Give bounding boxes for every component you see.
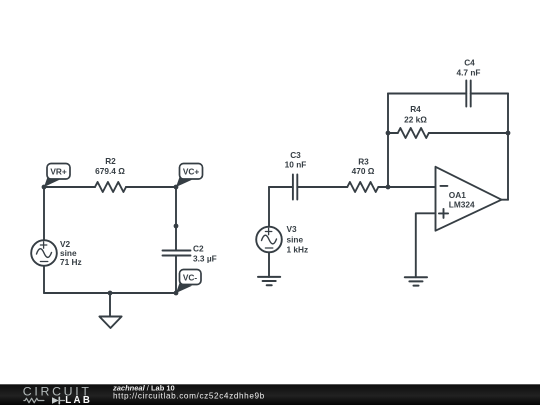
wire C3 right plate to R3 left lead <box>297 186 347 188</box>
wire bottom (left rail to right rail) <box>44 292 176 294</box>
wire R3 right lead to op-amp inverting input <box>378 186 435 188</box>
wire right rail down to output level <box>507 94 509 200</box>
wire output stub to op-amp <box>502 199 509 201</box>
wire ground stub <box>109 293 111 317</box>
svg-text:V3: V3 <box>287 224 298 234</box>
svg-text:1 kHz: 1 kHz <box>287 245 309 255</box>
svg-text:R2: R2 <box>105 156 116 166</box>
node dot VC- <box>174 291 179 296</box>
voltage source V2 sine 71 Hz <box>31 239 81 267</box>
svg-text:R4: R4 <box>410 104 421 114</box>
wire V3 top up to input wire <box>268 187 270 227</box>
svg-text:R3: R3 <box>358 156 369 166</box>
ground GND triangle symbol <box>99 317 121 329</box>
wire top rail to C4 left plate <box>388 93 466 95</box>
op-amp OA1 LM324 <box>436 167 502 231</box>
junction dot R4 right <box>506 131 511 136</box>
wire left rail lower (V2 bottom to bottom wire) <box>43 266 45 293</box>
CircuitLab logo: diode symbol <box>52 397 59 403</box>
junction dot above C2 <box>174 224 179 229</box>
resistor R4 22 kohm <box>388 104 508 138</box>
wire top-left node to R2 left lead <box>44 186 95 188</box>
junction dot ground tap <box>108 291 113 296</box>
net flag VR+ <box>44 164 70 188</box>
svg-text:C3: C3 <box>290 150 301 160</box>
earth ground under op-amp + input <box>405 277 427 285</box>
svg-text:C2: C2 <box>193 243 204 253</box>
svg-text:71 Hz: 71 Hz <box>60 257 82 267</box>
svg-text:VR+: VR+ <box>50 167 67 177</box>
net flag VC+ <box>176 164 203 188</box>
capacitor C4 4.7 nF <box>457 57 481 106</box>
junction dot feedback tap <box>386 185 391 190</box>
svg-text:C4: C4 <box>464 57 475 67</box>
wire feedback left rail up <box>387 94 389 188</box>
svg-text:VC-: VC- <box>183 272 198 282</box>
resistor R2 679.4 ohm <box>95 156 126 192</box>
wire R2 right lead to VC+ node <box>126 186 176 188</box>
svg-text:4.7 nF: 4.7 nF <box>457 68 481 78</box>
svg-text:22 kΩ: 22 kΩ <box>404 114 427 124</box>
wire V3 bottom down to earth ground <box>268 252 270 277</box>
wire non-inverting input to left and down <box>416 213 436 277</box>
junction dot R4 left <box>386 131 391 136</box>
wire input corner to C3 left plate <box>269 186 293 188</box>
CircuitLab logo: resistor zigzag <box>24 398 44 402</box>
svg-text:679.4 Ω: 679.4 Ω <box>95 166 125 176</box>
wire right rail lower (C2 bottom plate to VC- node) <box>175 256 177 294</box>
node dot VR+ <box>42 185 47 190</box>
svg-text:sine: sine <box>287 234 304 244</box>
earth ground under V3 <box>258 277 280 285</box>
wire left rail upper (VR+ node down to V2 top) <box>43 187 45 240</box>
svg-text:LAB: LAB <box>65 395 92 405</box>
net flag VC- <box>176 270 201 294</box>
voltage source V3 sine 1 kHz <box>256 224 308 255</box>
wire right rail upper (VC+ node down to C2 top plate) <box>175 187 177 250</box>
capacitor C2 3.3 uF <box>163 243 217 263</box>
svg-text:3.3 µF: 3.3 µF <box>193 254 217 264</box>
svg-text:VC+: VC+ <box>183 167 200 177</box>
svg-text:LM324: LM324 <box>449 200 475 210</box>
wire C4 right plate to right rail <box>471 93 508 95</box>
capacitor C3 10 nF <box>285 150 307 200</box>
resistor R3 470 ohm <box>347 156 378 192</box>
svg-text:470 Ω: 470 Ω <box>352 166 375 176</box>
svg-text:OA1: OA1 <box>449 190 466 200</box>
footer bar <box>0 384 540 405</box>
node dot VC+ <box>174 185 179 190</box>
svg-text:http://circuitlab.com/cz52c4zd: http://circuitlab.com/cz52c4zdhhe9b <box>113 392 265 401</box>
svg-text:10 nF: 10 nF <box>285 160 307 170</box>
